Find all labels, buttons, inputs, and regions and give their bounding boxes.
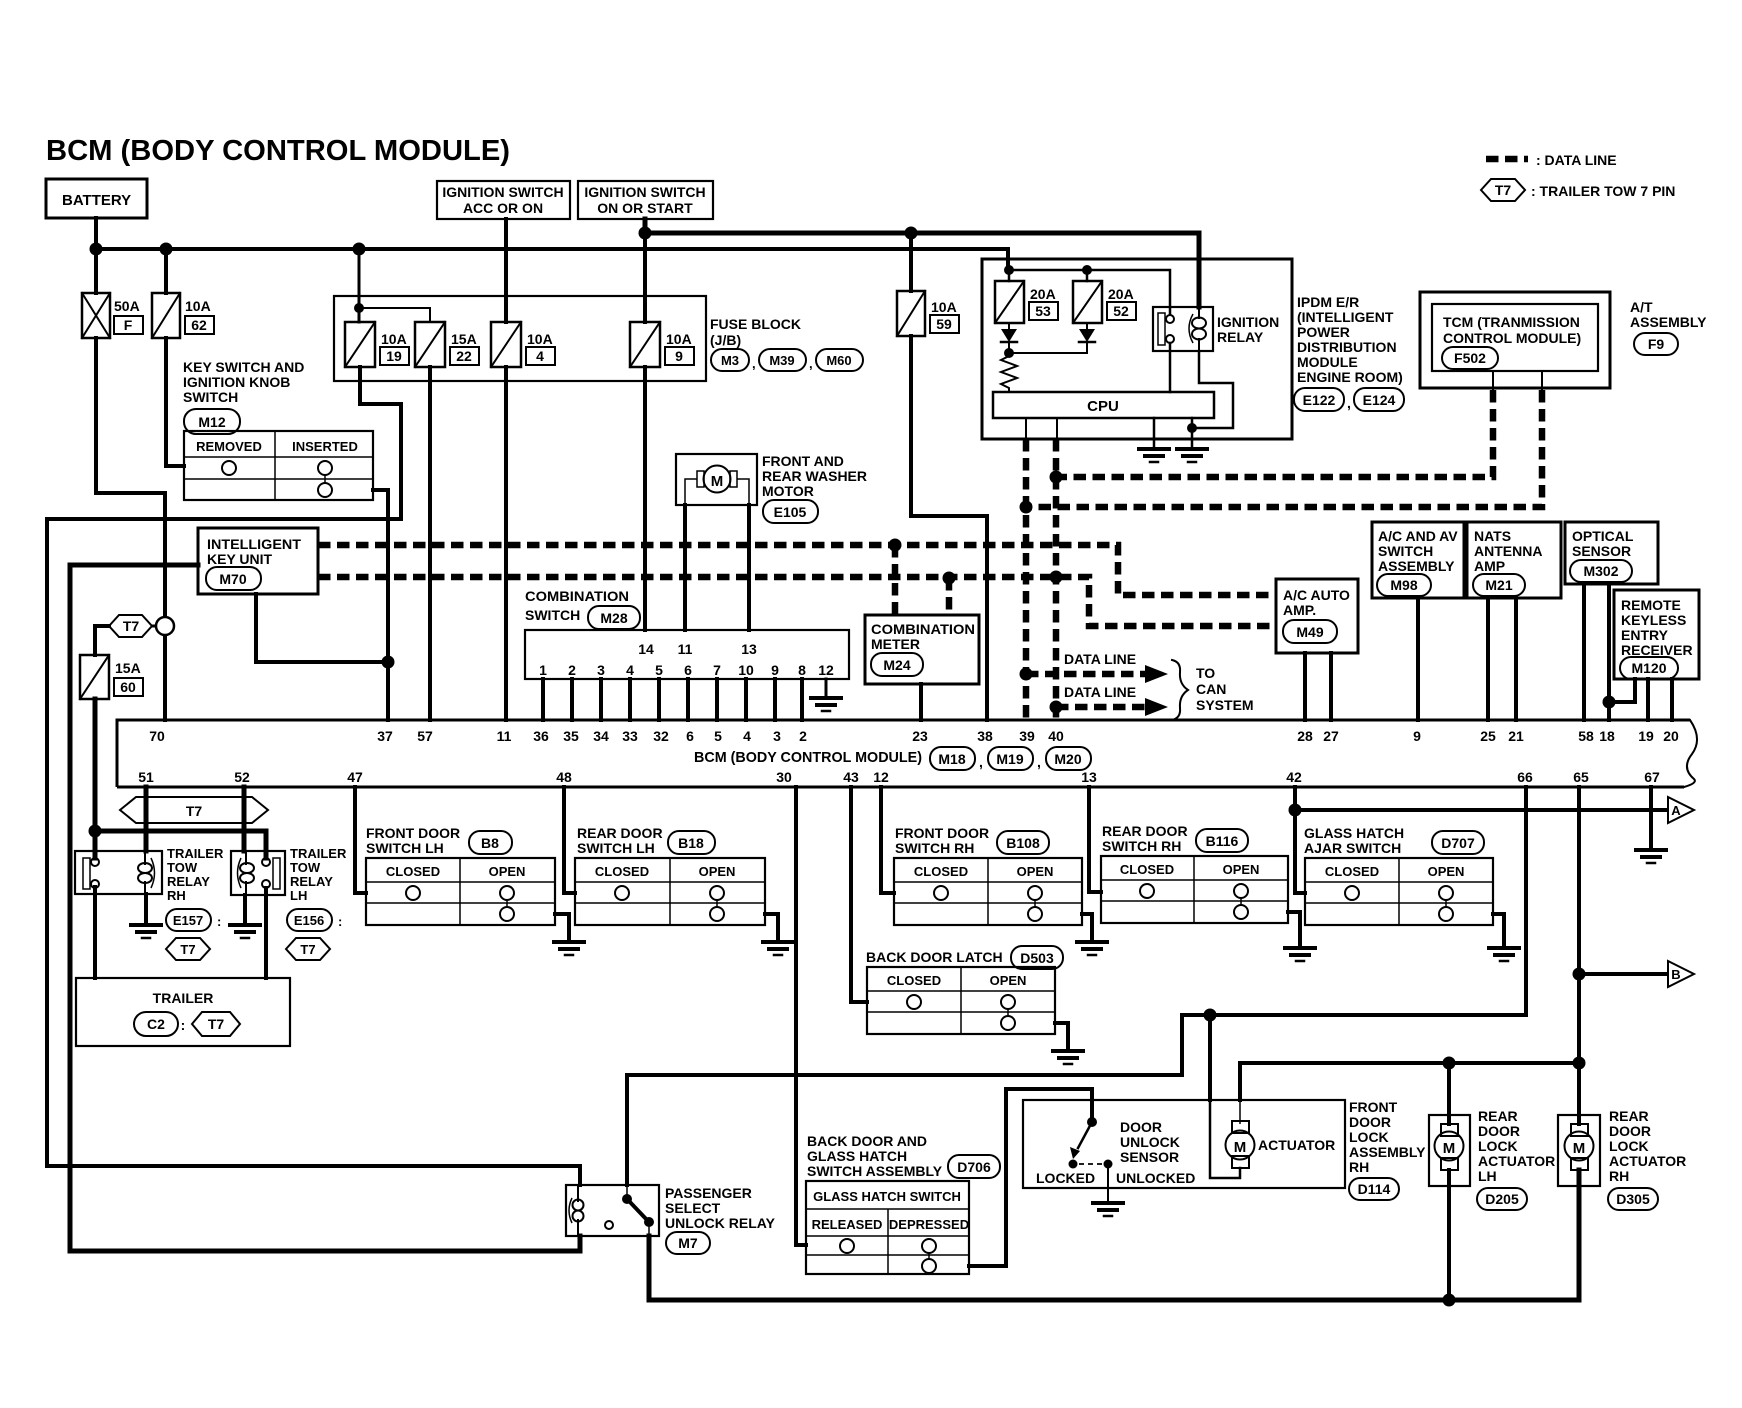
svg-text:20: 20	[1663, 728, 1679, 744]
svg-text:AMP: AMP	[1474, 558, 1505, 574]
svg-text:37: 37	[377, 728, 393, 744]
ground IPDM 1	[1139, 447, 1169, 451]
wire M120 pin jog to pin 18 line	[1609, 679, 1635, 702]
svg-text:SWITCH LH: SWITCH LH	[366, 840, 444, 856]
svg-text:11: 11	[497, 728, 512, 744]
svg-text:,: ,	[809, 356, 813, 371]
wire BCM pin 42 to glass hatch ajar switch	[1295, 787, 1305, 893]
svg-text:3: 3	[597, 662, 605, 678]
svg-text:12: 12	[818, 662, 834, 678]
node dot trailer feed	[89, 825, 102, 838]
svg-text:12: 12	[873, 769, 889, 785]
wire BCM pin 52 to trailer tow relay LH coil	[242, 787, 247, 851]
svg-text:REAR DOOR: REAR DOOR	[577, 825, 663, 841]
wire ACC down to fuse 4	[504, 219, 508, 322]
T7 trailer tow harness hexagon	[120, 797, 268, 823]
svg-text:35: 35	[563, 728, 579, 744]
svg-text:13: 13	[741, 641, 757, 657]
fuse 4 10A	[491, 322, 521, 367]
svg-text:: DATA LINE: : DATA LINE	[1536, 152, 1617, 168]
svg-text:(J/B): (J/B)	[710, 332, 741, 348]
node bus dot J/B	[353, 243, 366, 256]
CPU box	[993, 392, 1214, 418]
fuse 19 10A	[345, 322, 375, 367]
svg-text:11: 11	[678, 641, 693, 657]
svg-text:M60: M60	[826, 353, 851, 368]
svg-text:POWER: POWER	[1297, 324, 1350, 340]
wire fuse 59 output to BCM pin 38	[911, 336, 987, 720]
ground front door switch LH	[554, 940, 584, 944]
svg-text:67: 67	[1644, 769, 1660, 785]
legend T7 symbol	[1481, 179, 1525, 201]
svg-text:38: 38	[977, 728, 993, 744]
svg-text:6: 6	[684, 662, 692, 678]
svg-text:51: 51	[138, 769, 154, 785]
svg-text:A/T: A/T	[1630, 299, 1653, 315]
svg-text:LH: LH	[290, 888, 307, 903]
intelligent key unit M70 box	[198, 528, 318, 594]
svg-text:OPEN: OPEN	[1223, 862, 1260, 877]
node dot fuse19 top	[354, 303, 364, 313]
wire relay coil return to ground net	[1192, 351, 1233, 428]
svg-text:RH: RH	[1609, 1168, 1629, 1184]
node dot relay return	[1187, 423, 1197, 433]
svg-text:10: 10	[738, 662, 754, 678]
svg-text:2: 2	[799, 728, 807, 744]
svg-text:D503: D503	[1020, 950, 1054, 966]
svg-text:9: 9	[771, 662, 779, 678]
wire M98 to BCM pin 9	[1416, 598, 1420, 720]
connector M19	[988, 747, 1033, 770]
svg-text:2: 2	[568, 662, 576, 678]
wire fuse 4 output to BCM pin 11	[504, 367, 508, 720]
svg-text:E105: E105	[774, 504, 807, 520]
wire back door latch to ground	[1055, 1023, 1068, 1051]
svg-text:14: 14	[638, 641, 654, 657]
svg-text:DATA LINE: DATA LINE	[1064, 651, 1136, 667]
ground comb switch	[811, 696, 841, 700]
svg-text:ACTUATOR: ACTUATOR	[1478, 1153, 1555, 1169]
node dot H1 actuator LH	[1443, 1057, 1456, 1070]
svg-text:DOOR: DOOR	[1609, 1123, 1651, 1139]
wire CPU pins to data lines	[1026, 418, 1057, 439]
svg-text:E124: E124	[1363, 392, 1396, 408]
wire T7 hex to rail x95	[95, 626, 109, 655]
svg-text::: :	[217, 914, 221, 929]
svg-text:SWITCH: SWITCH	[183, 389, 238, 405]
svg-text:IGNITION: IGNITION	[1217, 314, 1279, 330]
connector arrow B	[1668, 961, 1694, 987]
svg-text:25: 25	[1480, 728, 1496, 744]
svg-text:19: 19	[386, 348, 402, 364]
wire BCM pin 13 to rear door switch RH	[1089, 787, 1101, 892]
svg-text:ACTUATOR: ACTUATOR	[1258, 1137, 1335, 1153]
wire unlock bus H1	[1240, 1063, 1579, 1100]
svg-text:D706: D706	[957, 1159, 991, 1175]
connector M39	[759, 349, 806, 371]
wire fusible link F down to elbow to pin70 rail	[96, 338, 165, 720]
svg-text:METER: METER	[871, 636, 920, 652]
wire bus A to fuse 59	[909, 233, 913, 291]
svg-text:RH: RH	[1349, 1159, 1369, 1175]
node dot pin 66 branch	[1204, 1009, 1217, 1022]
node dot pin37 IKU join	[382, 656, 395, 669]
svg-text:TOW: TOW	[290, 860, 321, 875]
node bus A dot ign start	[639, 227, 652, 240]
svg-text:MODULE: MODULE	[1297, 354, 1358, 370]
passenger select unlock relay M7	[566, 1185, 659, 1236]
T7 connector hexagon left	[109, 615, 152, 637]
svg-text:6: 6	[686, 728, 694, 744]
svg-text:OPTICAL: OPTICAL	[1572, 528, 1634, 544]
ignition switch ON OR START box	[578, 181, 713, 219]
svg-text:M20: M20	[1054, 751, 1081, 767]
ground pin 67	[1636, 848, 1666, 852]
svg-text:UNLOCK RELAY: UNLOCK RELAY	[665, 1215, 776, 1231]
BCM right brace edge	[1684, 720, 1697, 787]
wire rear door switch RH to ground	[1288, 912, 1300, 948]
svg-text:21: 21	[1508, 728, 1524, 744]
svg-text:52: 52	[1113, 303, 1129, 319]
NATS antenna amp M21 box	[1467, 522, 1561, 598]
svg-text:TRAILER: TRAILER	[167, 846, 224, 861]
fuse 60 15A	[80, 655, 109, 699]
wire BCM pin 43 to back door latch	[851, 787, 867, 1002]
svg-text:OPEN: OPEN	[990, 973, 1027, 988]
data line TCM pin 1	[1056, 390, 1493, 477]
wire BCM pin 48 to rear door switch LH	[564, 787, 575, 893]
wire front door switch LH to ground	[555, 914, 569, 942]
svg-text:IPDM E/R: IPDM E/R	[1297, 294, 1359, 310]
svg-text:10A: 10A	[527, 331, 553, 347]
svg-text:D205: D205	[1485, 1191, 1519, 1207]
svg-text:IGNITION SWITCH: IGNITION SWITCH	[584, 184, 705, 200]
svg-text:COMBINATION: COMBINATION	[525, 588, 629, 604]
svg-text:CLOSED: CLOSED	[914, 864, 968, 879]
svg-text:34: 34	[593, 728, 609, 744]
wire IPDM internal feed to fuses 53/52 and relay contact	[1008, 270, 1170, 314]
svg-text:ENTRY: ENTRY	[1621, 627, 1669, 643]
wire bus A horizontal (ignition on/start power)	[645, 219, 1199, 307]
rear door lock actuator RH D305	[1558, 1115, 1600, 1186]
svg-text:B: B	[1671, 967, 1680, 982]
ground glass hatch ajar switch	[1489, 946, 1519, 950]
svg-text:M28: M28	[600, 610, 627, 626]
svg-text:4: 4	[743, 728, 751, 744]
svg-text:FRONT DOOR: FRONT DOOR	[895, 825, 989, 841]
wire relay LH coil to ground	[243, 895, 247, 925]
svg-text:53: 53	[1035, 303, 1051, 319]
wire ignition on/start down to comb switch pin 14 via fuse 9	[643, 233, 647, 630]
connector M60	[816, 349, 863, 371]
ignition relay	[1153, 307, 1213, 351]
svg-text:28: 28	[1297, 728, 1313, 744]
svg-text:20A: 20A	[1108, 286, 1134, 302]
node dot diode junction	[1004, 348, 1014, 358]
fuse 9 10A	[630, 322, 660, 367]
svg-text:AMP.: AMP.	[1283, 602, 1316, 618]
svg-text:SWITCH ASSEMBLY: SWITCH ASSEMBLY	[807, 1163, 943, 1179]
svg-text:T7: T7	[180, 942, 195, 957]
wire fuse 19 output jog to left rail	[360, 367, 401, 519]
fuse 22 15A	[415, 322, 445, 367]
svg-text:BCM (BODY CONTROL MODULE): BCM (BODY CONTROL MODULE)	[694, 749, 922, 766]
svg-text:UNLOCKED: UNLOCKED	[1116, 1170, 1195, 1186]
svg-text:AJAR SWITCH: AJAR SWITCH	[1304, 840, 1401, 856]
svg-text:SELECT: SELECT	[665, 1200, 721, 1216]
wire glass hatch ajar switch to ground	[1493, 914, 1504, 948]
svg-text:T7: T7	[208, 1016, 225, 1032]
svg-text:70: 70	[149, 728, 165, 744]
svg-text:IGNITION KNOB: IGNITION KNOB	[183, 374, 290, 390]
svg-text:ASSEMBLY: ASSEMBLY	[1630, 314, 1707, 330]
svg-text:M98: M98	[1390, 577, 1417, 593]
brace to CAN system	[1172, 660, 1188, 720]
svg-text:23: 23	[912, 728, 928, 744]
svg-text:33: 33	[622, 728, 638, 744]
svg-text:30: 30	[776, 769, 792, 785]
svg-text:CLOSED: CLOSED	[1325, 864, 1379, 879]
svg-text:M21: M21	[1485, 577, 1512, 593]
svg-text:5: 5	[655, 662, 663, 678]
svg-text:(INTELLIGENT: (INTELLIGENT	[1297, 309, 1394, 325]
legend data line sample	[1486, 156, 1528, 163]
svg-text:SYSTEM: SYSTEM	[1196, 697, 1254, 713]
svg-text:T7: T7	[1495, 182, 1512, 198]
svg-text:18: 18	[1599, 728, 1615, 744]
data line CAN-L from IKU	[318, 577, 1276, 626]
wire diode junction	[1009, 342, 1087, 353]
trailer tow relay RH E157	[75, 851, 162, 894]
svg-text:8: 8	[798, 662, 806, 678]
svg-text:D707: D707	[1441, 835, 1475, 851]
svg-text:D305: D305	[1616, 1191, 1650, 1207]
svg-text:DOOR: DOOR	[1478, 1123, 1520, 1139]
svg-text:SWITCH RH: SWITCH RH	[1102, 838, 1181, 854]
svg-text:TRAILER: TRAILER	[153, 990, 214, 1006]
svg-text:FUSE BLOCK: FUSE BLOCK	[710, 316, 801, 332]
svg-text:OPEN: OPEN	[1017, 864, 1054, 879]
svg-text:10A: 10A	[931, 299, 957, 315]
svg-text:DISTRIBUTION: DISTRIBUTION	[1297, 339, 1397, 355]
svg-text:9: 9	[675, 348, 683, 364]
ground IPDM 2	[1177, 447, 1207, 451]
svg-text:FRONT AND: FRONT AND	[762, 453, 844, 469]
svg-text:OPEN: OPEN	[699, 864, 736, 879]
data line M24 pin A	[892, 545, 899, 615]
wire T7 hex to white connector	[152, 625, 165, 628]
svg-text:MOTOR: MOTOR	[762, 483, 814, 499]
node dot arrow B junction	[1573, 968, 1586, 981]
svg-text:60: 60	[120, 679, 136, 695]
svg-text:F9: F9	[1648, 336, 1665, 352]
svg-text:M: M	[1443, 1140, 1456, 1157]
wire relay output to actuator common	[649, 1170, 1579, 1300]
svg-text:36: 36	[533, 728, 549, 744]
svg-text:CPU: CPU	[1087, 398, 1119, 415]
svg-text:A: A	[1671, 803, 1681, 818]
svg-text:CLOSED: CLOSED	[386, 864, 440, 879]
svg-text:A/C AND AV: A/C AND AV	[1378, 528, 1458, 544]
svg-text:M: M	[1573, 1140, 1586, 1157]
svg-text:RELAY: RELAY	[1217, 329, 1264, 345]
svg-text:SENSOR: SENSOR	[1572, 543, 1631, 559]
svg-text:15A: 15A	[451, 331, 477, 347]
wire trailer feed to both relay contacts	[95, 831, 266, 858]
svg-text:ACTUATOR: ACTUATOR	[1609, 1153, 1686, 1169]
A/C and AV switch assembly M98 box	[1372, 522, 1464, 598]
svg-text:3: 3	[773, 728, 781, 744]
svg-text:CLOSED: CLOSED	[1120, 862, 1174, 877]
svg-text:CAN: CAN	[1196, 681, 1226, 697]
svg-text:PASSENGER: PASSENGER	[665, 1185, 752, 1201]
svg-text:BACK DOOR LATCH: BACK DOOR LATCH	[866, 949, 1003, 965]
front door lock assembly RH box	[1023, 1100, 1345, 1188]
wire glass hatch switch output to door unlock sensor pivot	[969, 1089, 1092, 1266]
trailer tow relay LH E156	[231, 851, 285, 895]
svg-text:15A: 15A	[115, 660, 141, 676]
ground front door switch RH	[1077, 940, 1107, 944]
svg-text:22: 22	[456, 348, 472, 364]
svg-text:10A: 10A	[185, 298, 211, 314]
wire BCM pin 12 to front door switch RH	[881, 787, 894, 893]
svg-text:FRONT DOOR: FRONT DOOR	[366, 825, 460, 841]
svg-text:ENGINE ROOM): ENGINE ROOM)	[1297, 369, 1403, 385]
svg-text:INSERTED: INSERTED	[292, 439, 358, 454]
node bus dot battery	[90, 243, 103, 256]
svg-text:D114: D114	[1358, 1181, 1391, 1197]
svg-text:T7: T7	[123, 618, 140, 634]
svg-text:42: 42	[1286, 769, 1302, 785]
svg-text:4: 4	[536, 348, 544, 364]
fuse 53 20A	[995, 281, 1024, 323]
wire to connector arrow A	[1295, 808, 1666, 812]
svg-text:INTELLIGENT: INTELLIGENT	[207, 536, 301, 552]
svg-text:LOCK: LOCK	[1349, 1129, 1389, 1145]
battery BATTERY	[46, 179, 147, 218]
svg-text:B8: B8	[481, 835, 499, 851]
BCM box	[117, 720, 1690, 787]
connector arrow A	[1668, 797, 1694, 823]
svg-text:SWITCH: SWITCH	[1378, 543, 1433, 559]
svg-text:M7: M7	[678, 1235, 698, 1251]
node dot pin18 join	[1603, 696, 1616, 709]
svg-text:BATTERY: BATTERY	[62, 192, 131, 209]
svg-text:10A: 10A	[666, 331, 692, 347]
wire fuse 60 down to trailer relay node	[93, 699, 98, 831]
resistor in IPDM	[1001, 353, 1017, 392]
node dot H1 actuator RH	[1573, 1057, 1586, 1070]
wire to connector arrow B	[1579, 972, 1666, 976]
fuse 59 10A	[897, 291, 925, 336]
svg-text:43: 43	[843, 769, 859, 785]
fusible link F 50A	[82, 293, 110, 338]
svg-text:9: 9	[1413, 728, 1421, 744]
wire comb switch pins 1-9 to BCM	[543, 679, 802, 720]
wire BCM pin 47 to front door switch LH	[355, 787, 366, 893]
svg-text:13: 13	[1081, 769, 1097, 785]
svg-text:GLASS HATCH: GLASS HATCH	[807, 1148, 907, 1164]
data line IPDM pin 39 vertical	[1023, 439, 1030, 720]
svg-text:66: 66	[1517, 769, 1533, 785]
wire M21 to BCM pins 25 21	[1488, 598, 1516, 720]
data line arrow 1 to CAN system	[1026, 671, 1145, 678]
svg-text:KEY UNIT: KEY UNIT	[207, 551, 273, 567]
svg-text:E156: E156	[294, 913, 324, 928]
svg-text:M: M	[711, 473, 724, 490]
node bus dot fuse62	[160, 243, 173, 256]
svg-text:4: 4	[626, 662, 634, 678]
svg-text:: TRAILER TOW 7 PIN: : TRAILER TOW 7 PIN	[1531, 183, 1675, 199]
wire left rail fuse19 net	[47, 519, 580, 1185]
ground rear door switch LH	[763, 940, 793, 944]
connector M20	[1046, 747, 1091, 770]
wire rear door switch LH to ground	[765, 914, 778, 942]
svg-text:57: 57	[417, 728, 433, 744]
ignition switch ACC OR ON box	[437, 181, 570, 219]
svg-text:M120: M120	[1631, 660, 1666, 676]
svg-text:OPEN: OPEN	[1428, 864, 1465, 879]
data line arrow 2 to CAN system	[1056, 704, 1145, 711]
svg-text:M24: M24	[883, 657, 910, 673]
ground relay LH	[230, 923, 260, 927]
node dot fuse53 feed	[1004, 265, 1014, 275]
connector M3	[711, 349, 749, 371]
wire relay RH contact to trailer	[93, 887, 97, 978]
svg-text:T7: T7	[186, 803, 203, 819]
wire M120 pins to BCM 19 20	[1648, 679, 1672, 720]
svg-text:TRAILER: TRAILER	[290, 846, 347, 861]
wire BCM pin 65 down to rear actuator RH	[1577, 787, 1581, 1124]
svg-text:ASSEMBLY: ASSEMBLY	[1349, 1144, 1426, 1160]
IPDM E/R box	[982, 259, 1292, 439]
combination meter M24 box	[865, 615, 979, 684]
svg-text:TOW: TOW	[167, 860, 198, 875]
svg-text:T7: T7	[300, 942, 315, 957]
svg-text:LOCKED: LOCKED	[1036, 1170, 1095, 1186]
svg-text:OPEN: OPEN	[489, 864, 526, 879]
wire relay LH contact to trailer	[264, 888, 268, 978]
svg-text:LOCK: LOCK	[1478, 1138, 1518, 1154]
svg-text:REAR: REAR	[1478, 1108, 1518, 1124]
wire washer motor pins to combination switch 11 and 13	[685, 505, 749, 630]
svg-text:RELEASED: RELEASED	[812, 1217, 883, 1232]
svg-text:27: 27	[1323, 728, 1339, 744]
svg-text:REAR DOOR: REAR DOOR	[1102, 823, 1188, 839]
connector circle on pin70 wire	[156, 617, 174, 635]
svg-text:TCM (TRANMISSION: TCM (TRANMISSION	[1443, 314, 1580, 330]
svg-text:CONTROL MODULE): CONTROL MODULE)	[1443, 330, 1581, 346]
wire IKU left pin to rail x70	[70, 565, 580, 1251]
svg-text:KEY SWITCH AND: KEY SWITCH AND	[183, 359, 304, 375]
ground rear door switch RH	[1285, 946, 1315, 950]
svg-text:KEYLESS: KEYLESS	[1621, 612, 1686, 628]
wire BCM pin 67 to ground	[1649, 787, 1653, 850]
rear door lock actuator LH D205	[1429, 1115, 1470, 1186]
svg-text::: :	[338, 914, 342, 929]
svg-text:5: 5	[714, 728, 722, 744]
diode under fuse 52	[1086, 323, 1088, 329]
remote keyless entry receiver M120 box	[1614, 590, 1699, 679]
svg-text:DEPRESSED: DEPRESSED	[889, 1217, 969, 1232]
wire TCM pins	[1493, 371, 1542, 390]
svg-text:B116: B116	[1206, 833, 1239, 849]
data line CAN-H from IKU	[318, 545, 1276, 595]
ground relay RH	[131, 923, 161, 927]
wire battery to fusible link F	[94, 249, 98, 293]
wire BCM pin 51 to trailer tow relay RH coil	[144, 787, 149, 851]
svg-text:48: 48	[556, 769, 572, 785]
